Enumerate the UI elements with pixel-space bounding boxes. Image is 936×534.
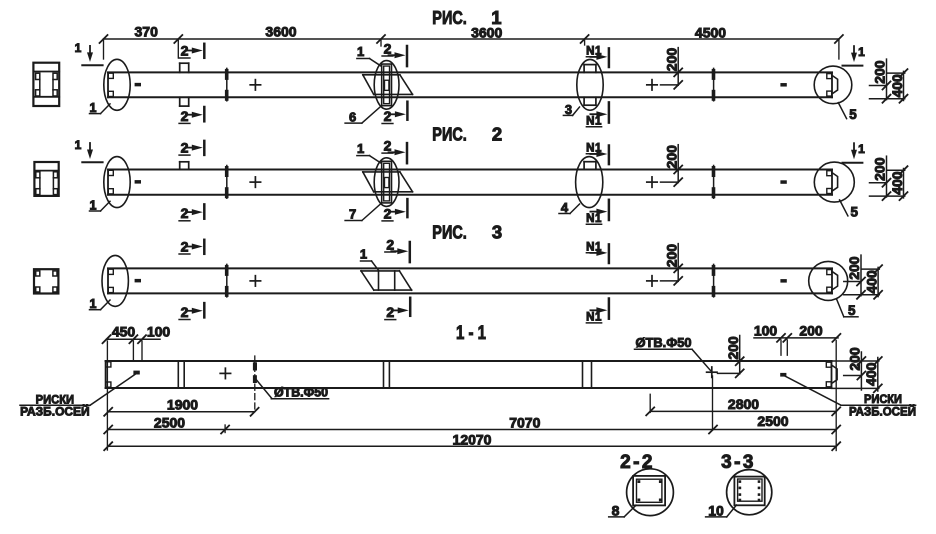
dim line 1900 [108, 411, 254, 413]
circle section 3-3 [727, 470, 772, 515]
svg-text:5: 5 [849, 107, 857, 122]
svg-text:400: 400 [864, 270, 880, 294]
svg-text:7070: 7070 [509, 414, 540, 430]
dim 200/400 lines right РИС.1 [886, 59, 888, 100]
label 10 leader [706, 516, 727, 518]
svg-text:8: 8 [612, 502, 620, 518]
dim 200/400 ticks right 1-1 [857, 357, 865, 365]
section 3-3 outer square [734, 477, 764, 506]
svg-text:200: 200 [872, 157, 888, 181]
label 1 leader left РИС.2 [90, 210, 101, 212]
svg-text:ØТВ.Ф50: ØТВ.Ф50 [274, 385, 328, 399]
axis mark left РИС.2 [135, 180, 141, 184]
dim extension x=838.9 [838, 39, 840, 59]
beam 1-1 left end [105, 361, 107, 388]
beam РИС.2 left end [107, 170, 109, 195]
section mark 2 lower-left РИС.1 [203, 107, 206, 121]
beam РИС.1 bottom edge [108, 96, 832, 98]
beam 1-1 bottom edge [106, 387, 832, 389]
section mark N1 lower РИС.1 [608, 102, 611, 122]
svg-text:2500: 2500 [154, 414, 185, 430]
section mark 2 upper-left РИС.1 [203, 44, 206, 58]
dim ticks 1900 [104, 408, 112, 416]
svg-text:5: 5 [851, 204, 859, 219]
svg-text:200: 200 [872, 60, 888, 84]
svg-text:N1: N1 [586, 116, 602, 128]
hole 2 dim ticks [736, 357, 744, 365]
dim ticks 100-200 right [777, 334, 785, 342]
break mark a РИС.3 [226, 264, 228, 297]
label 1 leader РИС.2 [357, 155, 370, 157]
svg-text:400: 400 [889, 171, 905, 195]
oval callout left end РИС.3 [102, 255, 128, 306]
svg-text:ØТВ.Ф50: ØТВ.Ф50 [636, 335, 692, 350]
beam РИС.3 right end [831, 268, 833, 293]
left section symbol row1 flange lines [33, 71, 59, 73]
axis mark left РИС.1 [135, 83, 141, 87]
beam РИС.1 right end [831, 72, 833, 97]
ellipse callout РИС.2 [374, 158, 399, 207]
oval callout joint detail РИС.1 [577, 59, 603, 110]
svg-text:1: 1 [858, 142, 865, 156]
svg-text:100: 100 [147, 324, 171, 340]
beam 1-1 top edge [106, 360, 832, 362]
axis cross right РИС.1 [647, 84, 657, 86]
section 3-3 rebar dots [739, 480, 742, 483]
dim extensions 450-100 [132, 341, 134, 360]
svg-text:1: 1 [858, 45, 865, 59]
joint lines 1-1 #1 [177, 361, 179, 388]
beam РИС.1 left end [107, 72, 109, 97]
circle section 2-2 [627, 469, 674, 516]
svg-text:РАЗБ.ОСЕЙ: РАЗБ.ОСЕЙ [849, 404, 916, 419]
embedded plate inner РИС.1 [384, 66, 390, 104]
label 5 leader РИС.3 [837, 300, 844, 317]
svg-text:7: 7 [349, 207, 356, 222]
svg-text:100: 100 [754, 323, 778, 339]
dim tick x=584.6 [581, 35, 589, 43]
svg-text:2: 2 [386, 304, 394, 320]
dim 200 ticks РИС.1 [674, 68, 682, 76]
label 4 leader РИС.2 [559, 213, 570, 215]
left section symbol row1 web lines [39, 80, 41, 90]
axis cross 1-1 [220, 372, 230, 374]
svg-text:400: 400 [889, 74, 905, 98]
svg-text:1 - 1: 1 - 1 [456, 323, 486, 344]
section mark 2 upper-mid РИС.3 [409, 242, 412, 262]
beam РИС.2 top edge [108, 169, 832, 171]
dim tick x=381 [377, 35, 385, 43]
svg-text:200: 200 [663, 244, 679, 268]
section mark 2 lower-mid РИС.3 [409, 298, 412, 316]
axis mark right РИС.1 [780, 83, 786, 87]
weld parallelogram РИС.2 [363, 171, 400, 173]
svg-text:450: 450 [112, 324, 136, 340]
dim 200 line РИС.3 [677, 244, 679, 282]
axis cross mid РИС.1 [250, 84, 260, 86]
section mark N1 upper РИС.2 [608, 146, 611, 165]
left section symbol row3 corner boxes [36, 271, 40, 276]
oval callout left end РИС.2 [104, 157, 130, 208]
hole 2 dim 200 line [739, 336, 741, 374]
section 2-2 rebar dots [638, 480, 641, 483]
break mark b РИС.3 [713, 264, 715, 297]
left section symbol row1 corner boxes [36, 73, 40, 79]
dim line 12070 [108, 445, 836, 447]
dim tick x=103.5 [100, 35, 108, 43]
circle callout right end РИС.3 [809, 261, 848, 300]
dim ticks 12070 [104, 442, 112, 450]
svg-text:2: 2 [181, 205, 189, 221]
embedded plate anchor box РИС.1 [385, 80, 389, 90]
section mark 1 left РИС.1 [87, 52, 93, 62]
dim 200/400 ticks right РИС.3 [857, 278, 865, 286]
extension 2800 left [649, 394, 651, 412]
axis cross right РИС.2 [647, 181, 657, 183]
svg-text:370: 370 [135, 23, 159, 39]
svg-text:2: 2 [386, 236, 394, 252]
oval callout joint detail РИС.2 [576, 157, 603, 208]
dim tick x=838.9 [835, 35, 843, 43]
section mark 2 lower-mid РИС.2 [406, 199, 409, 217]
dim line 450-100 [107, 338, 161, 340]
embedded plate outer РИС.2 [382, 161, 392, 203]
dim tick x=178.3 [174, 35, 182, 43]
dim 200/400 lines right РИС.3 [860, 255, 862, 296]
svg-text:3600: 3600 [265, 24, 296, 40]
svg-text:РИС.: РИС. [432, 8, 467, 28]
section mark 2 lower-left РИС.3 [203, 303, 206, 317]
svg-text:3: 3 [492, 222, 502, 243]
label 1 leader РИС.3 [361, 260, 372, 262]
svg-text:2: 2 [384, 108, 392, 124]
svg-text:200: 200 [847, 347, 863, 371]
right riska leader [785, 376, 842, 405]
svg-text:200: 200 [846, 256, 862, 280]
svg-text:3600: 3600 [471, 25, 502, 41]
axis mark right РИС.2 [780, 180, 786, 184]
weld parallelogram РИС.1 [363, 74, 400, 76]
dim ticks 450-100 [103, 335, 111, 343]
svg-text:РИС.: РИС. [432, 223, 467, 243]
dim 200 ticks РИС.2 [674, 166, 682, 174]
hole 2 extension down [712, 376, 714, 430]
svg-text:N1: N1 [586, 213, 602, 225]
svg-text:2: 2 [181, 42, 189, 58]
svg-text:2: 2 [181, 108, 189, 124]
break mark a РИС.2 [226, 166, 228, 199]
svg-text:1: 1 [90, 297, 97, 311]
svg-text:РАЗБ.ОСЕЙ: РАЗБ.ОСЕЙ [20, 404, 90, 419]
hole 2 label leader [635, 348, 693, 350]
svg-text:2: 2 [384, 205, 392, 221]
svg-text:1: 1 [357, 141, 364, 156]
svg-text:2500: 2500 [757, 413, 788, 429]
joint tab up РИС.1 [583, 65, 585, 73]
label 8 leader [609, 516, 624, 518]
svg-text:6: 6 [349, 109, 356, 124]
svg-text:2: 2 [181, 140, 189, 156]
svg-text:1: 1 [75, 138, 82, 152]
left riska leader [20, 404, 90, 406]
corbel tab up row1 [179, 63, 181, 72]
section mark 1 left РИС.2 [87, 150, 93, 160]
axis mark left РИС.3 [135, 279, 141, 283]
section 2-2 inner square [637, 479, 662, 502]
hole 1 label leader [255, 379, 272, 399]
dim line 2800 [650, 410, 836, 412]
svg-text:4500: 4500 [695, 25, 726, 41]
section mark 2 upper-mid РИС.2 [406, 143, 409, 163]
extension right bottom [835, 341, 837, 451]
ellipse callout РИС.1 [374, 61, 399, 110]
axis cross mid РИС.3 [250, 280, 260, 282]
dim 200 line РИС.2 [677, 145, 679, 183]
dim ticks 2800 [646, 407, 654, 415]
label 1 leader left РИС.3 [90, 309, 101, 311]
svg-text:2800: 2800 [728, 396, 759, 412]
svg-text:1: 1 [357, 44, 364, 59]
dim extensions 100-200 right [780, 340, 782, 355]
svg-text:200: 200 [725, 336, 741, 360]
axis cross right РИС.3 [647, 280, 657, 282]
dim 200 line РИС.1 [677, 48, 679, 86]
dim 200/400 ticks right РИС.2 [883, 179, 891, 187]
extension left bottom [106, 341, 108, 450]
section mark 2 lower-mid РИС.1 [406, 102, 409, 120]
axis mark right 1-1 [780, 373, 786, 377]
embedded plate anchor box РИС.2 [385, 178, 389, 188]
svg-text:4: 4 [561, 200, 569, 215]
svg-text:5: 5 [848, 303, 856, 318]
beam РИС.3 left end [107, 268, 109, 293]
left section symbol row1 outline [33, 63, 59, 106]
svg-text:2: 2 [181, 238, 189, 254]
svg-text:1: 1 [75, 41, 82, 55]
oval callout left end РИС.1 [104, 59, 130, 110]
embedded plate outer РИС.1 [382, 64, 392, 106]
beam РИС.3 bottom edge [108, 292, 832, 294]
beam РИС.2 bottom edge [108, 194, 832, 196]
left section symbol row3 outline [34, 269, 58, 293]
hole 1 marks 1-1 [253, 362, 257, 370]
beam РИС.3 top edge [108, 267, 832, 269]
svg-text:3: 3 [565, 102, 572, 117]
dim line 2500-7070-2500 [108, 429, 836, 431]
circle callout right end РИС.1 [814, 66, 852, 104]
label 1 leader left РИС.1 [90, 113, 101, 115]
label 6 leader РИС.1 [345, 122, 362, 124]
svg-text:2: 2 [384, 40, 392, 56]
svg-text:РИС.: РИС. [432, 124, 467, 144]
hole 1 dashed axis [254, 356, 256, 412]
section mark N1 upper РИС.3 [608, 244, 611, 263]
dim extension x=103.5 [103, 39, 105, 59]
break mark a РИС.1 [226, 68, 228, 100]
section mark N1 lower РИС.2 [608, 200, 611, 220]
extension 2500L [224, 425, 226, 433]
corbel tab down row1 [179, 97, 181, 106]
svg-text:12070: 12070 [453, 432, 492, 448]
svg-text:2-2: 2-2 [620, 452, 655, 473]
svg-text:400: 400 [863, 362, 879, 386]
svg-text:N1: N1 [586, 143, 602, 155]
axis mark left 1-1 [133, 371, 139, 375]
svg-text:200: 200 [663, 48, 679, 72]
weld parallelogram РИС.3 [361, 270, 399, 272]
section mark 2 upper-left РИС.3 [203, 240, 206, 254]
svg-text:N1: N1 [586, 312, 602, 324]
break mark b РИС.1 [713, 68, 715, 100]
dim ticks 2500-7070-2500 [104, 426, 112, 434]
dim 200/400 lines right 1-1 [860, 352, 862, 390]
dim line 100-200 right [754, 337, 838, 339]
section 3-3 inner square [738, 479, 762, 501]
hole 2 cross [707, 371, 717, 373]
label 5 leader РИС.2 [840, 200, 848, 216]
label 1 leader РИС.1 [357, 58, 370, 60]
beam 1-1 right end [831, 361, 833, 388]
embedded plate inner РИС.2 [384, 163, 390, 201]
left section symbol row2 flange line [34, 170, 58, 172]
section mark N1 upper РИС.1 [608, 48, 611, 67]
label 5 leader РИС.1 [838, 103, 846, 119]
section mark 2 upper-left РИС.2 [203, 141, 206, 155]
dim 200 ticks РИС.3 [674, 264, 682, 272]
section mark N1 lower РИС.3 [608, 299, 611, 319]
svg-text:1: 1 [360, 247, 367, 262]
beam РИС.2 right end [831, 170, 833, 195]
joint lines 1-1 #2 [383, 361, 385, 388]
svg-text:1: 1 [90, 101, 97, 115]
svg-text:2: 2 [181, 304, 189, 320]
joint tab down РИС.1 [583, 97, 585, 105]
axis cross mid РИС.2 [250, 181, 260, 183]
svg-text:200: 200 [663, 145, 679, 169]
joint lines 1-1 #3 [582, 361, 584, 388]
left section symbol row2 outline [34, 162, 58, 196]
section mark 1 right РИС.1 [851, 53, 857, 63]
beam РИС.1 top edge [108, 71, 832, 73]
dim extension x=584.6 [584, 39, 586, 45]
svg-text:200: 200 [799, 323, 823, 339]
dim extension x=178.3 [177, 39, 179, 58]
svg-text:N1: N1 [586, 45, 602, 57]
dim extension x=381 [380, 39, 382, 46]
dimension chain line top [104, 38, 839, 40]
section mark 2 upper-mid РИС.1 [406, 46, 409, 66]
svg-text:1: 1 [90, 198, 97, 212]
svg-text:2: 2 [492, 123, 502, 144]
svg-text:10: 10 [708, 502, 724, 518]
section mark 1 right РИС.2 [851, 150, 857, 160]
corbel tab up row2 [179, 162, 181, 170]
dim 200/400 lines right РИС.2 [886, 156, 888, 197]
left section symbol row2 corner boxes [36, 172, 40, 178]
circle callout right end РИС.2 [814, 162, 854, 202]
section 2-2 outer square [633, 476, 665, 506]
left section symbol row2 web lines [39, 178, 41, 189]
label 7 leader РИС.2 [345, 220, 362, 222]
svg-text:N1: N1 [586, 241, 602, 253]
svg-text:1900: 1900 [167, 397, 198, 413]
joint tab up РИС.2 [583, 162, 585, 170]
label 3 leader РИС.1 [563, 114, 572, 116]
dim 200/400 ticks right РИС.1 [883, 81, 891, 89]
section mark 2 lower-left РИС.2 [203, 204, 206, 218]
break mark b РИС.2 [713, 166, 715, 199]
axis mark right РИС.3 [780, 279, 786, 283]
svg-text:2: 2 [384, 138, 392, 154]
